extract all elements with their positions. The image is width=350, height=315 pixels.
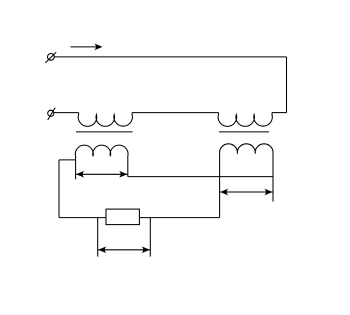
wire: between L1 and L2 — [132, 112, 218, 114]
dimension arrow w2 (width of L4) — [220, 189, 272, 196]
wire: L2 to right vertical — [272, 112, 287, 114]
inductor L2 (primary winding 2, loops below line) — [218, 113, 272, 127]
extension line right of resistor dimension — [149, 218, 151, 257]
dimension arrow w3 (width of R) — [98, 246, 150, 253]
wire: left column of secondary loop — [58, 160, 60, 218]
wire: L3 left leg stub — [75, 160, 77, 179]
extension line left of resistor dimension — [97, 218, 99, 257]
wire: T2 to coil L1 — [54, 112, 79, 114]
wire: L3 right leg — [127, 160, 129, 177]
terminal T2 (lower input, circle with slash) — [48, 108, 56, 120]
current direction arrow — [71, 43, 103, 50]
wire: L4 right leg stub — [272, 154, 274, 202]
core line of transformer 2 — [219, 131, 269, 133]
wire: right vertical drop — [286, 57, 288, 113]
inductor L4 (secondary winding 2, loops up) — [220, 144, 274, 154]
inductor L3 (secondary winding 1, loops up) — [75, 145, 128, 160]
inductor L1 (primary winding 1, loops below line) — [78, 113, 132, 127]
wire: L4 left leg down to bottom conductor — [219, 154, 221, 218]
wire: bottom conductor — [59, 217, 220, 219]
terminal T1 (top input, circle with slash) — [45, 52, 56, 63]
dimension arrow w1 (width of L3) — [76, 171, 127, 178]
wire: left lead of L3 — [59, 159, 76, 161]
wire: top conductor — [55, 56, 287, 58]
wire: L3 to L4 right leg — [128, 176, 273, 178]
resistor R (rectangle) — [106, 209, 139, 225]
core line of transformer 1 — [76, 131, 133, 133]
